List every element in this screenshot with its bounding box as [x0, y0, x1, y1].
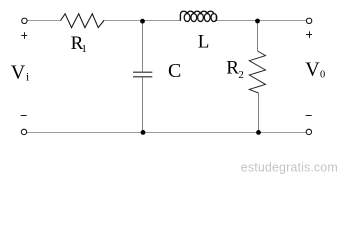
svg-text:1: 1: [81, 43, 87, 55]
svg-text:L: L: [198, 32, 210, 53]
svg-text:i: i: [26, 71, 29, 83]
svg-text:R: R: [226, 57, 239, 78]
svg-text:2: 2: [238, 69, 244, 81]
svg-text:V: V: [11, 61, 26, 83]
svg-text:C: C: [168, 60, 181, 82]
svg-text:estudegratis.com.br: estudegratis.com.br: [241, 161, 338, 175]
svg-text:0: 0: [320, 69, 325, 80]
svg-text:V: V: [305, 59, 320, 81]
